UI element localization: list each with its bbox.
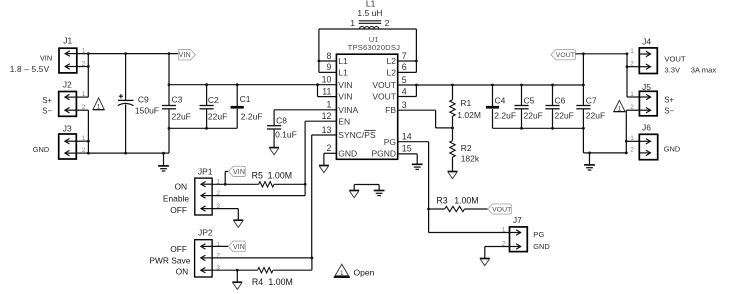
J1 input connector: [59, 48, 77, 73]
svg-text:8: 8: [326, 51, 331, 61]
wire VIN top rail: [77, 53, 178, 55]
node VIN flag at JP2: [228, 241, 245, 252]
svg-text:R5: R5: [252, 171, 263, 181]
wire SYNC net: [312, 134, 337, 136]
capacitor C5 22uF: [521, 85, 523, 106]
svg-text:R1: R1: [460, 98, 471, 108]
wire JP1.3 to gnd: [212, 208, 238, 210]
capacitor C1 2.2uF: [236, 85, 238, 106]
svg-text:1: 1: [630, 91, 634, 98]
resistor R5 1.00M: [259, 182, 274, 187]
svg-text:2: 2: [326, 143, 331, 153]
wire pin4 link: [398, 96, 417, 98]
svg-text:22uF: 22uF: [172, 112, 191, 122]
wire JP2.3: [212, 269, 258, 271]
svg-text:PG: PG: [533, 230, 544, 239]
svg-text:10: 10: [322, 75, 332, 85]
svg-text:L1: L1: [338, 56, 348, 66]
capacitor C2 22uF: [206, 85, 208, 106]
svg-text:R4: R4: [252, 277, 263, 287]
capacitor C6 22uF: [552, 85, 554, 106]
wire cap bottom rail left: [169, 127, 237, 129]
svg-text:2: 2: [216, 252, 220, 259]
ground C8: [269, 147, 279, 149]
svg-text:6: 6: [402, 62, 407, 72]
wire VINA: [274, 109, 336, 111]
wire J2.2 to J3 gnd: [76, 109, 88, 111]
svg-text:1: 1: [630, 48, 634, 55]
wire PG net: [398, 141, 429, 143]
ground earth left: [163, 153, 165, 166]
svg-text:ON: ON: [176, 266, 189, 276]
svg-text:C9: C9: [138, 94, 149, 104]
svg-text:J5: J5: [642, 82, 651, 92]
svg-text:2: 2: [385, 18, 390, 28]
junctions VIN rail: [124, 52, 127, 55]
svg-text:2: 2: [630, 147, 634, 154]
svg-text:C1: C1: [240, 94, 251, 104]
capacitor C7 22uF: [582, 54, 584, 106]
jumper JP1: [195, 178, 212, 215]
capacitor C8 0.1uF: [273, 110, 275, 126]
wire VIN cap rail to pin10: [169, 84, 336, 86]
svg-text:L2: L2: [387, 68, 397, 78]
svg-text:PWR Save: PWR Save: [149, 255, 190, 265]
svg-text:S−: S−: [42, 107, 52, 116]
ground J7.2: [480, 258, 490, 260]
svg-text:14: 14: [402, 132, 412, 142]
svg-text:J6: J6: [642, 123, 651, 133]
svg-text:S+: S+: [664, 96, 674, 105]
svg-text:PGND: PGND: [371, 148, 396, 158]
svg-text:VOUT: VOUT: [664, 54, 685, 63]
svg-text:11: 11: [322, 86, 331, 96]
svg-text:S+: S+: [42, 96, 52, 105]
svg-text:2: 2: [216, 190, 220, 197]
svg-text:J4: J4: [642, 37, 651, 47]
svg-text:C8: C8: [276, 115, 287, 125]
ground JP1.3: [233, 219, 243, 221]
J6 gnd connector: [639, 134, 657, 159]
svg-text:3A max: 3A max: [691, 66, 717, 75]
svg-text:3.3V: 3.3V: [664, 66, 681, 75]
svg-text:VIN: VIN: [338, 92, 352, 102]
node VIN flag: [178, 50, 195, 60]
svg-text:C2: C2: [208, 95, 219, 105]
ground JP2.3: [232, 281, 242, 283]
net tie analog to power gnd: [354, 184, 379, 186]
svg-text:GND: GND: [664, 145, 680, 154]
svg-text:JP2: JP2: [198, 228, 213, 238]
svg-text:1.00M: 1.00M: [454, 196, 478, 206]
svg-text:VINA: VINA: [338, 105, 358, 115]
svg-text:4: 4: [402, 86, 407, 96]
svg-text:13: 13: [322, 125, 332, 135]
J3 gnd connector: [59, 134, 77, 159]
svg-text:EN: EN: [338, 116, 350, 126]
svg-text:GND: GND: [33, 145, 49, 154]
junction J1 pins: [87, 52, 90, 55]
wire L1 left leg: [319, 28, 417, 30]
capacitor C4 2.2uF: [492, 85, 494, 106]
resistor R2 182k: [452, 128, 454, 141]
jumper JP2: [195, 240, 213, 277]
svg-text:1.5 uH: 1.5 uH: [357, 8, 382, 18]
svg-text:VIN: VIN: [233, 169, 245, 176]
svg-text:2.2uF: 2.2uF: [494, 111, 516, 121]
wire pin11 link: [317, 85, 319, 97]
wire L1 right leg: [415, 29, 417, 72]
wire VIN drop to cap rail: [168, 54, 170, 106]
svg-text:2.2uF: 2.2uF: [241, 112, 263, 122]
svg-text:VIN: VIN: [40, 54, 52, 63]
ground earth PGND: [412, 163, 423, 165]
svg-text:R3: R3: [436, 196, 447, 206]
svg-text:1: 1: [350, 18, 355, 28]
svg-text:VOUT: VOUT: [556, 52, 575, 59]
svg-text:1.8 – 5.5V: 1.8 – 5.5V: [10, 64, 50, 74]
svg-text:S−: S−: [664, 107, 674, 116]
warning triangle 1 near J5: [614, 100, 625, 111]
svg-text:L1: L1: [338, 68, 348, 78]
svg-text:0.1uF: 0.1uF: [275, 129, 297, 139]
svg-text:7: 7: [402, 51, 407, 61]
svg-text:C3: C3: [172, 94, 183, 104]
wire GND rail left: [88, 152, 169, 154]
node VIN flag at JP1: [228, 166, 245, 176]
svg-text:OFF: OFF: [170, 244, 187, 254]
wire J1.2 to J2.1: [77, 66, 89, 68]
resistor R3 1.00M: [429, 208, 445, 210]
legend warning triangle Open: [335, 264, 349, 276]
svg-text:3: 3: [402, 100, 407, 110]
svg-text:VOUT: VOUT: [372, 92, 396, 102]
svg-text:FB: FB: [385, 105, 396, 115]
wire U1 GND pin: [324, 152, 337, 154]
capacitor C3 22uF: [162, 105, 176, 107]
svg-text:R2: R2: [461, 143, 472, 153]
svg-text:1: 1: [630, 135, 634, 142]
svg-text:OFF: OFF: [170, 205, 187, 215]
J7 PG connector: [510, 227, 528, 252]
svg-text:182k: 182k: [461, 154, 480, 164]
svg-text:1: 1: [340, 270, 344, 277]
wire GND rail right: [582, 128, 584, 153]
resistor R4 1.00M: [258, 268, 273, 273]
svg-text:GND: GND: [533, 242, 549, 251]
wire JP2.3 gnd stem: [236, 270, 238, 282]
svg-text:15: 15: [402, 144, 412, 154]
svg-text:J1: J1: [63, 36, 72, 46]
svg-text:VIN: VIN: [338, 80, 352, 90]
svg-text:C5: C5: [524, 95, 535, 105]
wire EN net: [305, 120, 336, 122]
svg-text:SYNC/PS: SYNC/PS: [338, 130, 376, 140]
svg-text:Enable: Enable: [163, 193, 189, 203]
ground R2: [448, 171, 458, 173]
svg-text:22uF: 22uF: [524, 111, 543, 121]
svg-text:1: 1: [97, 104, 101, 111]
wire PGND pin15: [398, 153, 418, 155]
junctions VOUT rail: [491, 84, 494, 87]
svg-text:5: 5: [402, 75, 407, 85]
wire VOUT rail: [398, 84, 584, 86]
svg-text:22uF: 22uF: [555, 111, 574, 121]
svg-text:VIN: VIN: [179, 52, 191, 59]
svg-text:VOUT: VOUT: [372, 80, 396, 90]
J4 output connector: [639, 48, 657, 74]
svg-text:2: 2: [630, 61, 634, 68]
svg-text:J2: J2: [63, 79, 72, 89]
op-amp U1 TPS63020DSJ: [336, 54, 397, 159]
svg-text:1: 1: [618, 106, 622, 113]
svg-text:12: 12: [322, 111, 332, 121]
svg-text:150uF: 150uF: [135, 105, 159, 115]
svg-text:1.02M: 1.02M: [457, 110, 481, 120]
svg-text:TPS63020DSJ: TPS63020DSJ: [348, 43, 401, 52]
ground U1 GND: [319, 165, 329, 167]
J2 sense connector: [59, 92, 77, 117]
capacitor C9 150uF: [125, 54, 127, 101]
ground earth right: [589, 153, 591, 165]
warning triangle 1 near J2: [93, 98, 104, 110]
svg-text:22uF: 22uF: [208, 112, 227, 122]
wire JP2.1 to VIN flag: [212, 245, 228, 247]
svg-text:C6: C6: [555, 95, 566, 105]
svg-text:L2: L2: [387, 56, 397, 66]
svg-text:J3: J3: [63, 124, 72, 134]
ground earth net-tie: [374, 190, 385, 192]
wire J7.2 gnd: [485, 246, 510, 248]
svg-text:VIN: VIN: [233, 244, 245, 251]
svg-text:J7: J7: [513, 215, 522, 225]
svg-text:C7: C7: [586, 95, 597, 105]
svg-text:VOUT: VOUT: [492, 206, 511, 213]
resistor R1 1.02M: [452, 85, 454, 100]
svg-text:GND: GND: [338, 148, 357, 158]
svg-text:22uF: 22uF: [586, 111, 605, 121]
J5 sense connector: [639, 91, 657, 116]
svg-text:PG: PG: [384, 137, 396, 147]
wire cap bottom rail right: [493, 127, 584, 129]
wire VOUT top: [575, 53, 627, 55]
node VOUT flag: [551, 50, 575, 60]
wire JP1.1 VIN tap: [212, 183, 259, 185]
svg-text:Open: Open: [354, 268, 375, 278]
wire FB net: [398, 109, 436, 111]
svg-text:C4: C4: [495, 95, 506, 105]
svg-text:1: 1: [326, 100, 331, 110]
svg-text:ON: ON: [174, 182, 187, 192]
wire J5.2 to J6: [626, 109, 639, 111]
ground open net-tie: [349, 190, 359, 192]
svg-text:1: 1: [502, 227, 506, 234]
node VOUT flag at R3: [488, 204, 512, 214]
svg-text:1.00M: 1.00M: [268, 277, 292, 287]
svg-text:9: 9: [326, 62, 331, 72]
svg-text:1.00M: 1.00M: [268, 171, 292, 181]
svg-text:JP1: JP1: [198, 166, 213, 176]
